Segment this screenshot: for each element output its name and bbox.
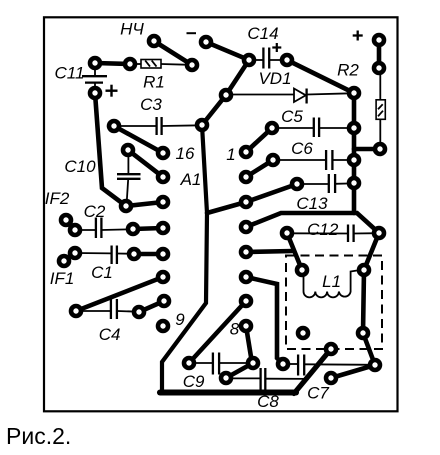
pad C2 right — [128, 224, 138, 234]
wire C12 left to L1 top-left — [287, 233, 302, 270]
pad C7 left — [278, 359, 288, 369]
pad C14 left — [244, 55, 254, 65]
wire C1 right to pin 12 — [134, 252, 163, 257]
pad R2 bottom — [375, 144, 385, 154]
lead C3 — [115, 125, 156, 127]
wire C12 right to L1 top-right — [364, 233, 379, 270]
pad A1 pin 5 — [241, 247, 251, 257]
label plus near C14 — [272, 43, 281, 52]
capacitor C1 plates — [110, 246, 112, 265]
wire pin 8 to C9 right — [246, 326, 252, 363]
capacitor C12 plates — [347, 225, 349, 243]
pad C11 top — [90, 58, 100, 68]
pad C6 right — [349, 155, 359, 165]
pad A1 pin 11 — [158, 272, 168, 282]
svg-text:1: 1 — [226, 145, 235, 164]
ground trace central vertical — [162, 125, 207, 391]
wire C4 left to pin 11 — [76, 277, 163, 311]
ground trace bottom bar — [160, 389, 296, 395]
pad A1 pin 2 — [241, 172, 251, 182]
pad C5 right — [349, 123, 359, 133]
pad A1 pin 6 — [241, 272, 251, 282]
pad A1 pin 1 — [241, 147, 251, 157]
capacitor C9 plates — [212, 353, 214, 375]
lead C11 — [94, 65, 96, 76]
resistor R1 — [141, 60, 161, 69]
pad A1 pin 15 — [158, 172, 168, 182]
pad C9 right — [248, 358, 258, 368]
pad L1 top-left — [297, 265, 307, 275]
pad C8 left — [221, 373, 231, 383]
wire minus pad to C14 left to VD1 anode junction to C3 right — [202, 42, 249, 125]
pad C12 left — [282, 228, 292, 238]
svg-text:C14: C14 — [247, 24, 278, 43]
wire C5 left to pin 1 — [246, 128, 272, 152]
lead C10 — [127, 151, 129, 174]
pad C1 right — [129, 249, 139, 259]
capacitor C3 plates — [155, 117, 157, 135]
svg-text:C8: C8 — [257, 392, 279, 411]
svg-text:C6: C6 — [291, 139, 313, 158]
wire C11 bottom to C10 bottom junction — [95, 93, 126, 206]
lead VD1 — [229, 94, 294, 96]
lead C8 — [227, 377, 260, 379]
capacitor C4 plates — [110, 299, 112, 319]
wire C4 right to pin 10 — [139, 301, 164, 312]
pad A1 pin 12 — [158, 249, 168, 259]
pad IF1 a — [70, 248, 80, 258]
ground trace diagonal to end pad — [294, 349, 331, 394]
lead C12 — [288, 232, 348, 234]
svg-text:C2: C2 — [84, 202, 106, 221]
wire pin 3 to central ground trace — [207, 202, 246, 213]
wire C6 left to pin 2 — [246, 160, 273, 177]
capacitor C2 plates — [95, 218, 97, 239]
wire C7 right junction to lower pad — [331, 365, 375, 378]
wire C14 right to VD1 cathode junction — [287, 60, 354, 93]
pad A1 pin 4 — [241, 222, 251, 232]
lead C7 — [284, 363, 298, 365]
pad НЧ — [149, 36, 159, 46]
pad C13 left — [292, 179, 302, 189]
pad L1 top-right — [359, 265, 369, 275]
svg-text:L1: L1 — [322, 272, 341, 291]
lead C4 — [77, 310, 110, 312]
label minus — [187, 32, 197, 34]
capacitor C8 plates — [259, 368, 261, 391]
pad C11 bottom — [90, 88, 100, 98]
resistor R2 — [376, 100, 385, 120]
svg-text:C7: C7 — [307, 384, 329, 403]
svg-text:VD1: VD1 — [258, 69, 291, 88]
lead R2 — [379, 69, 381, 100]
pad C3 right — [197, 120, 207, 130]
wire C10 top to pin 15 — [128, 150, 163, 177]
wire НЧ pad to R1 right pad — [154, 41, 192, 65]
svg-text:C13: C13 — [296, 194, 328, 213]
capacitor C13 plates — [328, 174, 330, 193]
lead R1 — [133, 63, 141, 65]
svg-text:8: 8 — [230, 320, 240, 339]
svg-text:НЧ: НЧ — [120, 20, 144, 39]
svg-text:C12: C12 — [307, 220, 339, 239]
wire junction to R2 bottom pad — [354, 147, 380, 152]
pad C14 right — [282, 55, 292, 65]
wire C10 bottom junction to pin 14 — [126, 202, 163, 206]
inductor L1 dashed box — [286, 256, 382, 350]
pad C10 top — [123, 145, 133, 155]
svg-text:C4: C4 — [99, 325, 121, 344]
capacitor C6 plates — [325, 150, 327, 170]
wire C2 right to pin 13 — [133, 228, 163, 229]
svg-text:C1: C1 — [91, 263, 113, 282]
pad R1 left — [125, 59, 135, 69]
wire pin 6 to C7 left — [246, 277, 283, 364]
pad A1 pin 9 — [158, 321, 168, 331]
pad R1 right — [187, 60, 197, 70]
pad C6 left — [268, 155, 278, 165]
svg-text:9: 9 — [175, 310, 185, 329]
pad A1 pin 3 — [241, 197, 251, 207]
wire L1 top-right to bottom-right to C7 right junction — [363, 270, 375, 365]
pad output lower — [326, 373, 336, 383]
wire main right vertical net — [352, 93, 357, 213]
pad plus supply — [374, 35, 384, 45]
pad ground end — [326, 344, 336, 354]
wire C9 right to C8 left — [226, 363, 253, 378]
pad R2 top — [374, 63, 384, 73]
svg-text:C5: C5 — [281, 107, 303, 126]
pad IF2 a — [61, 215, 71, 225]
pad IF2 b — [70, 225, 80, 235]
lead C2 — [76, 229, 95, 231]
svg-text:C9: C9 — [183, 372, 205, 391]
lead C6 — [274, 159, 326, 161]
wire plus pad to R2 top pad — [377, 40, 382, 68]
pad A1 pin 16 — [158, 148, 168, 158]
pad C5 left — [267, 123, 277, 133]
pad A1 pin 13 — [158, 223, 168, 233]
capacitor C11 plates — [82, 75, 107, 77]
pad L1 bottom-left — [298, 328, 308, 338]
svg-text:A1: A1 — [180, 170, 202, 189]
svg-text:C3: C3 — [140, 95, 162, 114]
pad C12 right — [374, 228, 384, 238]
svg-text:16: 16 — [176, 144, 195, 163]
pad C4 right — [134, 307, 144, 317]
svg-text:IF1: IF1 — [50, 269, 75, 288]
lead C1 — [76, 252, 111, 254]
wire pin 7 to C9 left — [189, 301, 246, 363]
pad VD1 anode junction — [221, 90, 231, 100]
lead C9 — [190, 362, 212, 364]
svg-text:C11: C11 — [55, 64, 85, 83]
pad C9 left — [184, 358, 194, 368]
capacitor C10 plates — [117, 173, 141, 175]
wire C3 left to pin 16 — [114, 126, 163, 153]
pad C13 right — [349, 178, 359, 188]
pad minus input — [201, 37, 211, 47]
svg-text:IF2: IF2 — [45, 189, 70, 208]
wire C13 left to pin 3 — [246, 184, 297, 202]
diode VD1 — [294, 89, 307, 104]
label plus near C11 — [106, 85, 118, 97]
pad VD1 cathode junction — [349, 88, 359, 98]
pad A1 pin 8 — [241, 321, 251, 331]
wire pin 5 to L1 feed junction — [246, 251, 293, 252]
pad L1 bottom-right — [358, 328, 368, 338]
inductor L1 coil — [304, 271, 358, 298]
svg-text:R1: R1 — [143, 73, 165, 92]
svg-text:R2: R2 — [337, 61, 359, 80]
svg-text:C10: C10 — [64, 157, 96, 176]
pad C10 bottom junction — [121, 201, 131, 211]
pad C4 left — [71, 306, 81, 316]
pad A1 pin 7 — [241, 296, 251, 306]
svg-text:Рис.2.: Рис.2. — [6, 423, 71, 449]
label plus top right — [353, 31, 363, 41]
wire horizontal net pin4 to C12 right — [246, 213, 379, 233]
pad IF1 b — [59, 256, 69, 266]
wire C11 top to R1 left — [95, 63, 130, 64]
pad C3 left — [109, 121, 119, 131]
board outline — [44, 17, 398, 411]
capacitor C14 plates — [262, 48, 264, 69]
pad A1 pin 14 — [158, 197, 168, 207]
pad A1 pin 10 — [159, 296, 169, 306]
lead C14 — [250, 59, 263, 61]
lead C13 — [298, 183, 328, 185]
capacitor C5 plates — [313, 118, 315, 138]
pad C7 right junction — [370, 360, 380, 370]
lead C5 — [273, 127, 313, 129]
capacitor C7 plates — [297, 355, 299, 376]
